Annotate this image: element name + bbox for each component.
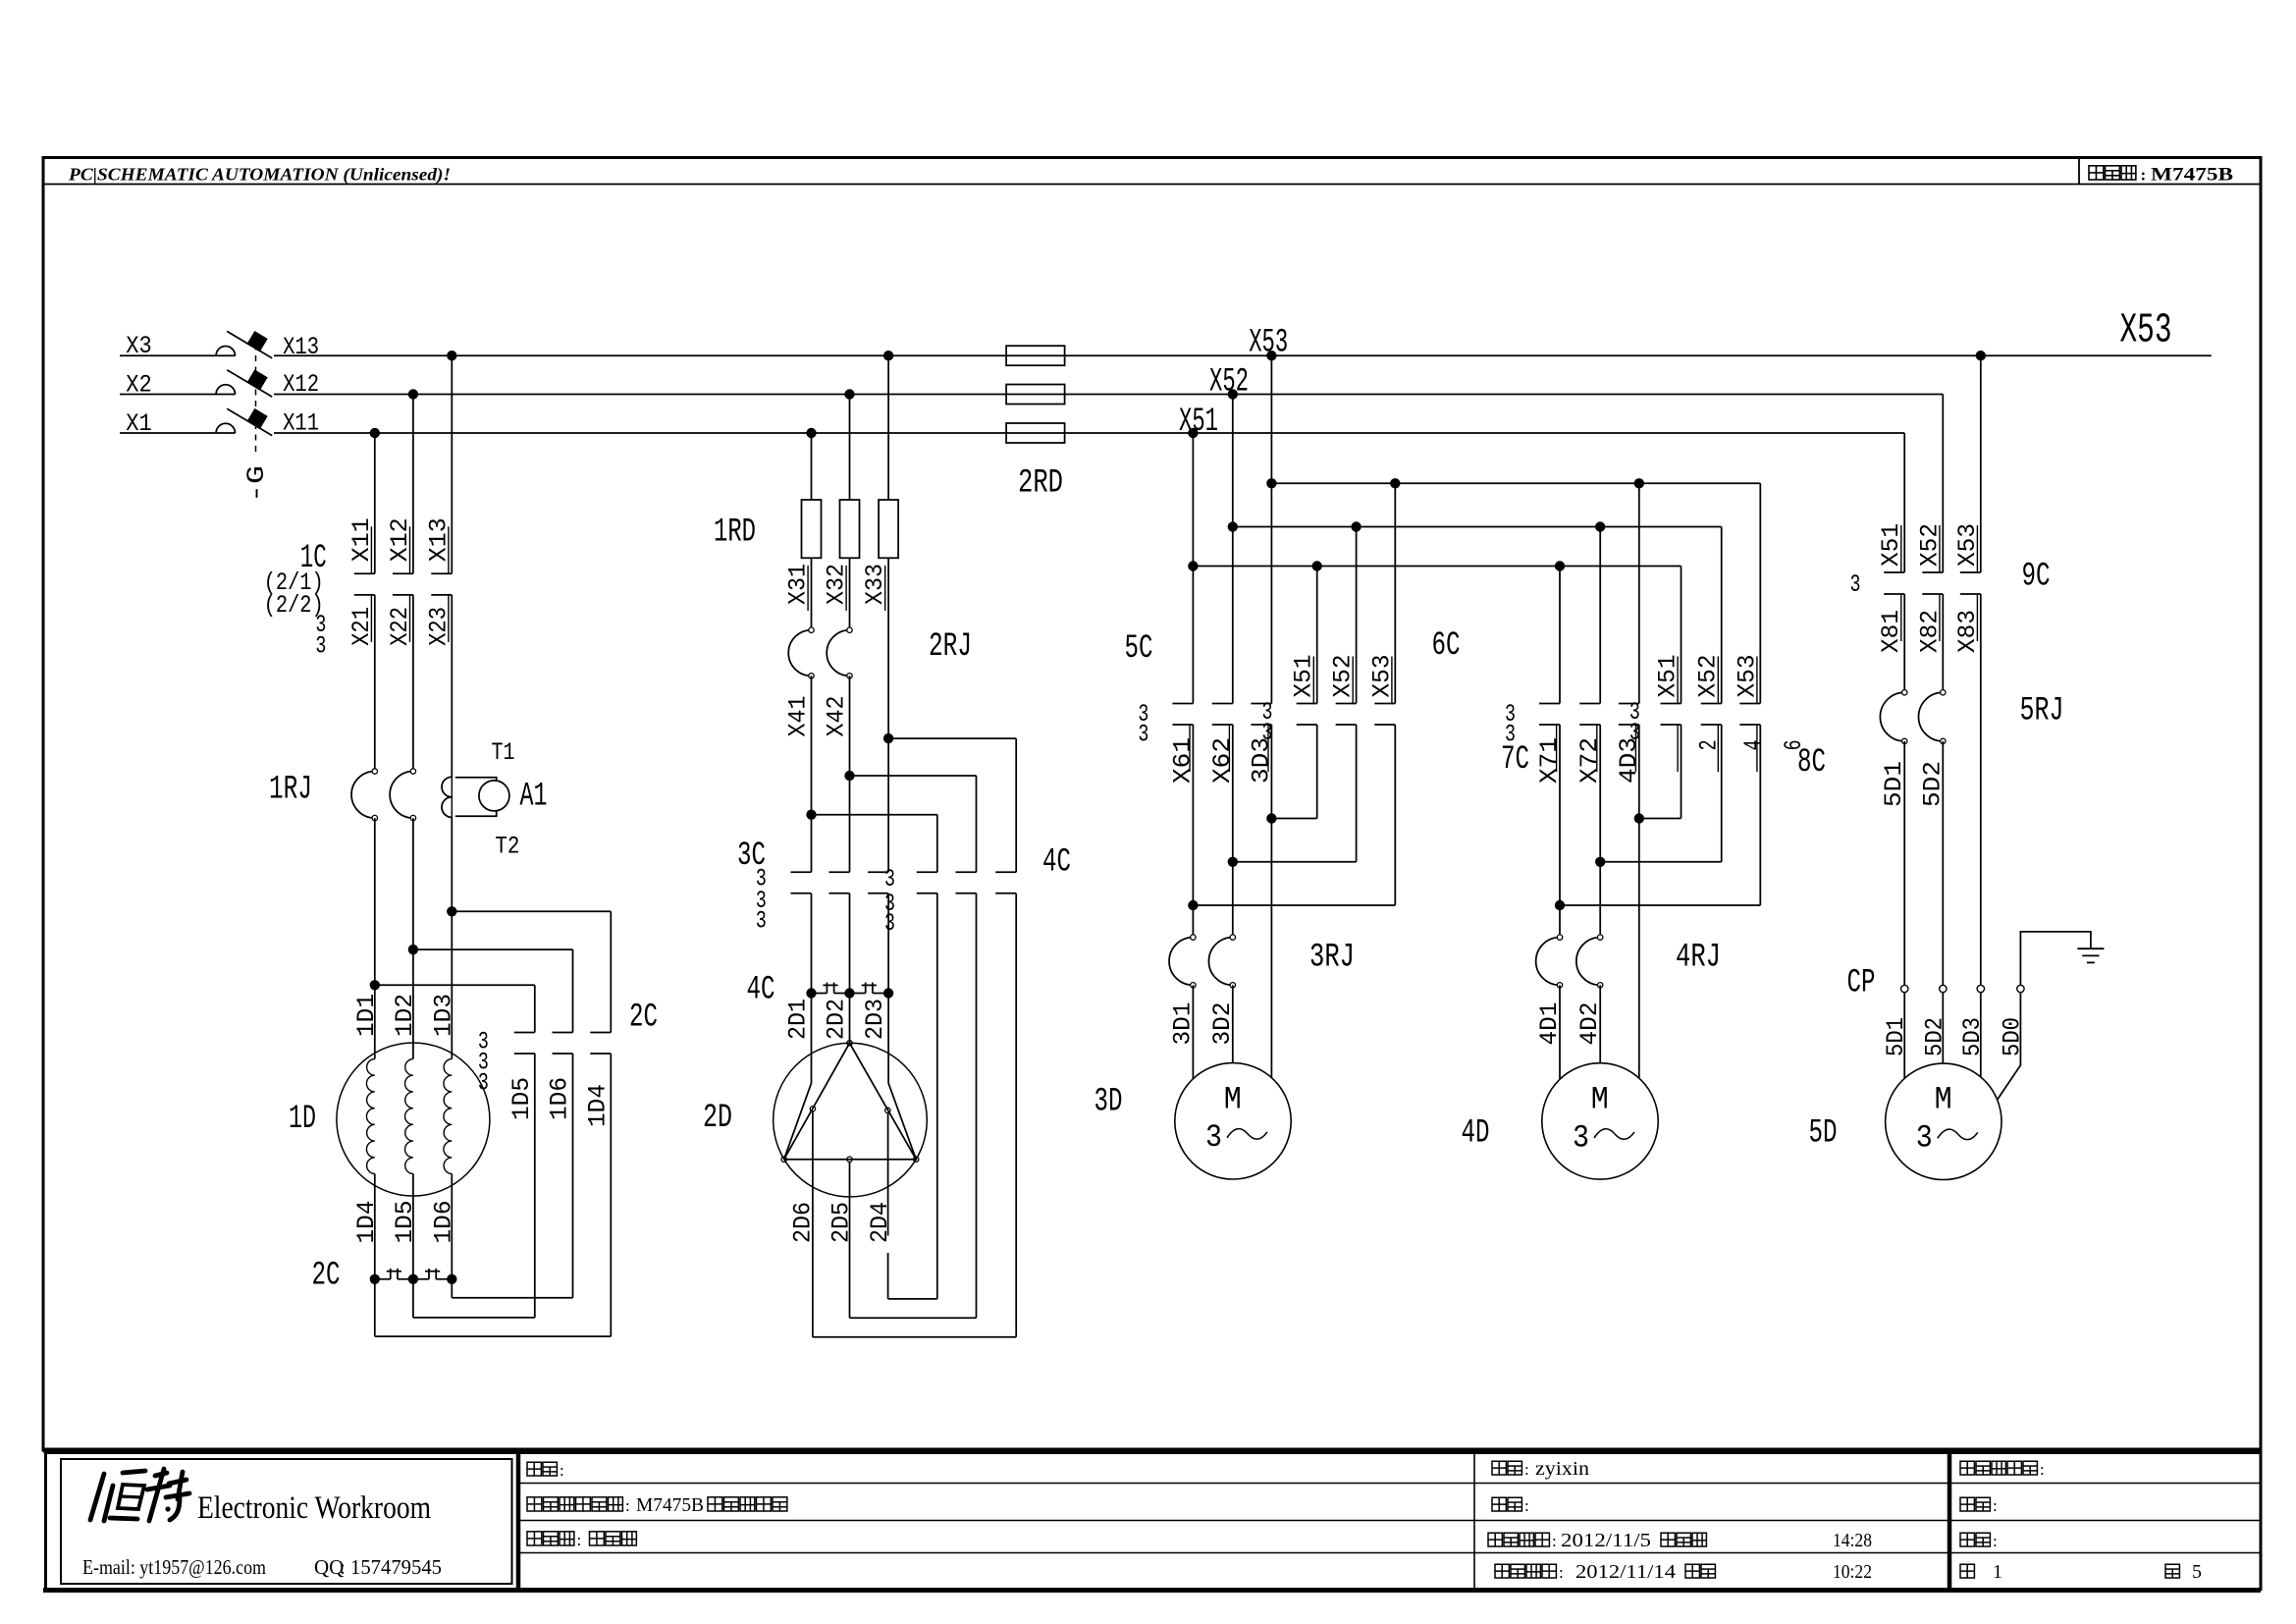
wire B1 to merge xyxy=(1316,725,1318,819)
svg-text:E-mail: yt1957@126.com: E-mail: yt1957@126.com xyxy=(82,1555,266,1579)
ammeter A1 wiring xyxy=(455,778,497,782)
contactor 8C contact X52 xyxy=(1701,703,1722,705)
svg-text:2D3: 2D3 xyxy=(861,999,889,1040)
svg-text:3: 3 xyxy=(1205,1119,1222,1156)
ground wire from CP xyxy=(2020,932,2091,986)
contactor 5C contact x=1215.4 xyxy=(1172,703,1193,705)
contactor 2C contact 1 xyxy=(514,1032,535,1034)
svg-text:3: 3 xyxy=(756,907,767,936)
link bridge 2 xyxy=(413,1278,429,1280)
node X1-C1 xyxy=(370,428,380,438)
svg-text:1D4: 1D4 xyxy=(352,1201,381,1244)
contactor 3C contact 3 xyxy=(868,871,888,873)
title block bottom thick line xyxy=(43,1588,2261,1593)
merge dot P1 xyxy=(1555,900,1565,910)
wire R6 upper xyxy=(610,911,612,1032)
wire 4D2 to motor xyxy=(1599,985,1601,1062)
wire 1D3 drop xyxy=(451,817,453,1058)
wire X82 to 5RJ xyxy=(1942,594,1944,692)
node X33 branch xyxy=(883,733,893,743)
field 共 5 xyxy=(2165,1564,2179,1578)
svg-text:3D: 3D xyxy=(1095,1084,1123,1121)
title row line 1 xyxy=(518,1483,2261,1485)
node X2-C2 xyxy=(408,389,418,399)
contactor 9C contact X53/X83 xyxy=(1960,571,1981,573)
svg-text:2C: 2C xyxy=(629,1000,658,1037)
thermal relay 2RJ arc 2 xyxy=(827,630,849,677)
motor 2D circle xyxy=(774,1043,928,1197)
node X52 tap xyxy=(1228,389,1238,399)
rail dot C-L1 xyxy=(1188,561,1198,570)
svg-text:2D6: 2D6 xyxy=(789,1202,818,1243)
svg-text::: : xyxy=(1559,1563,1564,1582)
wire X42 segment xyxy=(849,676,851,872)
star link dot 2 xyxy=(408,1274,418,1284)
wire S5 lower xyxy=(976,893,978,1318)
svg-text::: : xyxy=(340,1555,346,1579)
field 审核: xyxy=(1492,1497,1506,1511)
svg-text::: : xyxy=(1993,1496,1998,1515)
delta winding triangle xyxy=(784,1043,917,1159)
wire 2D4 tail xyxy=(887,1113,889,1236)
wire 5D3 to CP xyxy=(1980,594,1982,985)
svg-text:2C: 2C xyxy=(312,1258,341,1295)
svg-text:2D4: 2D4 xyxy=(866,1202,894,1243)
svg-text:5C: 5C xyxy=(1125,630,1153,668)
rail dot A-P3 xyxy=(1634,478,1644,488)
svg-text::: : xyxy=(1552,1532,1557,1550)
wire X41 segment xyxy=(811,676,813,872)
current transformer T1/T2 bumps xyxy=(442,777,452,797)
wire M1 to link xyxy=(811,893,813,994)
wire 5D0 to motor xyxy=(1998,993,2021,1100)
branch P1 drop xyxy=(1559,567,1561,704)
wire X21 segment xyxy=(374,595,376,772)
thermal relay 1RJ arc 2 xyxy=(390,772,413,819)
field 页 1 xyxy=(1960,1564,1974,1578)
wire 1D5 tail xyxy=(412,1279,414,1318)
node X3-C3 xyxy=(447,351,456,360)
contactor 2C contact 2 xyxy=(553,1032,573,1034)
svg-text:10:22: 10:22 xyxy=(1833,1561,1872,1583)
wire B3 to merge xyxy=(1394,725,1396,905)
ammeter A1 circle xyxy=(479,781,509,811)
contactor 9C contact X52/X82 xyxy=(1922,571,1943,573)
node 1D3 branch xyxy=(447,906,456,916)
svg-text:3RJ: 3RJ xyxy=(1309,940,1355,977)
rail X51 end drop xyxy=(1681,567,1682,704)
X53 tap drop xyxy=(1980,355,1982,572)
CP terminal 5D0 xyxy=(2017,985,2024,992)
wire X53 drop xyxy=(1270,355,1272,703)
title divider thick 2 xyxy=(1948,1453,1952,1590)
svg-text:9C: 9C xyxy=(2022,559,2051,596)
contactor 5C contact x=1255.8 xyxy=(1212,703,1233,705)
merge dot L3 xyxy=(1266,813,1276,823)
wire R5 lower xyxy=(572,1054,574,1298)
bottom run 2D4-S4 xyxy=(888,1298,937,1300)
rail dot A-B3 xyxy=(1390,478,1400,488)
terminal BL xyxy=(781,1157,786,1162)
svg-text:CP: CP xyxy=(1847,965,1876,1002)
svg-text:X12: X12 xyxy=(283,370,319,399)
motor 3D xyxy=(1175,1063,1291,1179)
wire M3 to link xyxy=(887,893,889,994)
wire Q3 to merge xyxy=(1759,725,1761,905)
transformer winding 3 xyxy=(444,1059,452,1174)
svg-text::: : xyxy=(577,1531,582,1549)
svg-text:2D5: 2D5 xyxy=(828,1202,856,1243)
svg-text:2RD: 2RD xyxy=(1018,464,1063,502)
merge dot P3 xyxy=(1634,813,1644,823)
svg-text:3: 3 xyxy=(1138,720,1148,748)
svg-text:4C: 4C xyxy=(1042,844,1071,882)
svg-text:X13: X13 xyxy=(283,333,319,361)
wire P1 to 4RJ xyxy=(1559,905,1561,938)
rail X53 end drop xyxy=(1759,483,1761,703)
logo 恒特 (calligraphy) xyxy=(90,1469,189,1521)
wire 3D3 to motor xyxy=(1270,819,1272,1078)
svg-text:X2: X2 xyxy=(126,370,152,399)
CP terminal 5D1 xyxy=(1901,985,1908,992)
wire 5D1 to CP xyxy=(1903,741,1905,986)
svg-text:5D: 5D xyxy=(1809,1115,1838,1153)
merge dot L1 xyxy=(1188,900,1198,910)
svg-text:6C: 6C xyxy=(1432,627,1461,665)
wire M2 to link xyxy=(849,893,851,994)
svg-text:5: 5 xyxy=(2192,1561,2202,1583)
svg-text:3: 3 xyxy=(1573,1119,1589,1156)
breaker linkage dashed line xyxy=(255,333,257,454)
svg-text:A1: A1 xyxy=(520,779,548,816)
X52 line corner drop xyxy=(1942,395,1944,573)
wire 2D5 tail xyxy=(849,1162,851,1318)
wire R4 upper xyxy=(534,985,536,1032)
thermal relay 4RJ arc 2 xyxy=(1576,938,1600,986)
svg-text:4: 4 xyxy=(1739,739,1768,750)
field 创建时间: 2012/11/5 星期一 14:28 xyxy=(1488,1533,1502,1546)
title block frame xyxy=(46,1453,2262,1590)
wire L3 to merge xyxy=(1270,725,1272,819)
rail X52 xyxy=(1233,526,1722,528)
svg-text:2D2: 2D2 xyxy=(823,999,851,1040)
svg-text:X42: X42 xyxy=(823,696,851,737)
title row line 2 xyxy=(518,1520,2261,1522)
branch B3 drop xyxy=(1394,483,1396,703)
wire L2 to merge xyxy=(1232,725,1234,862)
wire M3 to contact xyxy=(887,738,889,872)
wire X11 drop xyxy=(374,433,376,573)
contactor 6C contact X52 xyxy=(1336,703,1357,705)
contactor 4C contact 1 xyxy=(917,871,937,873)
wire 4D1 to motor xyxy=(1559,985,1561,1079)
rail dot B-B2 xyxy=(1351,521,1361,531)
phase line X3 (top) xyxy=(120,354,236,356)
contactor 8C contact X51 xyxy=(1661,703,1682,705)
link dot M2 xyxy=(844,988,854,998)
wire Q1 to merge xyxy=(1681,725,1682,819)
svg-text:X51: X51 xyxy=(1179,404,1218,441)
thermal relay 3RJ arc 1 xyxy=(1169,938,1193,986)
contactor 6C contact X51 xyxy=(1297,703,1317,705)
star link dot 1 xyxy=(370,1274,380,1284)
motor 4D xyxy=(1542,1063,1658,1179)
filename label 文件名: M7475B xyxy=(2089,166,2104,180)
wire Q2 to merge xyxy=(1721,725,1723,862)
svg-text:X53: X53 xyxy=(1249,325,1288,362)
breaker -G pole X13 xyxy=(216,347,235,356)
wire 4D3 to motor xyxy=(1638,819,1640,1078)
field 用户: xyxy=(527,1462,541,1476)
node X53-9C tap xyxy=(1976,351,1986,360)
svg-text:X11: X11 xyxy=(283,408,319,437)
svg-text:2012/11/5: 2012/11/5 xyxy=(1561,1530,1651,1551)
thermal relay 5RJ arc 2 xyxy=(1919,692,1944,741)
phase line X1 (bottom) xyxy=(120,432,236,434)
bottom run 1D6-R5 xyxy=(452,1297,572,1299)
svg-text:2D: 2D xyxy=(703,1100,732,1137)
contactor 5C contact x=1295.4 xyxy=(1251,703,1271,705)
bottom run 2D5-S5 xyxy=(850,1317,977,1319)
wire X81 to 5RJ xyxy=(1903,594,1905,692)
link dot M1 xyxy=(806,988,816,998)
svg-text:X1: X1 xyxy=(126,409,152,438)
wire P2 to 4RJ xyxy=(1599,862,1601,938)
wire 5D2 to CP xyxy=(1942,741,1944,986)
branch 1D1 to R4 xyxy=(375,984,535,986)
svg-text:1D6: 1D6 xyxy=(429,1201,457,1244)
wire M2 drop xyxy=(849,395,851,501)
CP terminal 5D3 xyxy=(1977,985,1984,992)
branch B2 drop xyxy=(1356,527,1358,704)
wire 5D3 to motor xyxy=(1980,993,1982,1077)
wire 1D1 drop xyxy=(374,818,376,1058)
terminal BR xyxy=(914,1157,919,1162)
svg-text:5D3: 5D3 xyxy=(1958,1017,1987,1056)
wire X32 segment xyxy=(849,558,851,629)
wire S6 upper xyxy=(1015,738,1017,872)
svg-text:3: 3 xyxy=(884,909,895,938)
bottom run 1D4-R6 xyxy=(375,1335,612,1337)
svg-text:4D: 4D xyxy=(1462,1115,1490,1153)
svg-text:Electronic Workroom: Electronic Workroom xyxy=(197,1490,431,1526)
title divider thin xyxy=(1473,1453,1475,1590)
wire winding1 to star xyxy=(374,1174,376,1279)
svg-text:5D0: 5D0 xyxy=(1998,1017,2026,1056)
phase line X2 (middle) xyxy=(120,394,236,396)
contactor 3C contact 1 xyxy=(791,871,812,873)
wire X13 drop xyxy=(451,355,453,573)
contactor 1C contact X13/X23 xyxy=(431,572,452,574)
wire S4 upper xyxy=(936,815,938,873)
node X42 branch xyxy=(844,771,854,781)
field 参考: xyxy=(1960,1533,1974,1546)
svg-text:1D1: 1D1 xyxy=(352,994,381,1037)
terminal apex xyxy=(847,1041,852,1046)
contactor 2C contact 3 xyxy=(590,1032,611,1034)
node X53 tap xyxy=(1266,351,1276,360)
branch X33 to S6 xyxy=(888,737,1016,739)
field 修订: xyxy=(1960,1497,1974,1511)
wire X22 segment xyxy=(412,595,414,772)
wire B2 to merge xyxy=(1356,725,1358,862)
svg-text:3: 3 xyxy=(478,1068,489,1097)
wire X23 through CT xyxy=(451,777,453,817)
svg-text::: : xyxy=(1524,1496,1529,1515)
contactor 8C contact X53 xyxy=(1739,703,1760,705)
svg-text:3: 3 xyxy=(1850,570,1861,599)
wire L1 to merge xyxy=(1192,725,1194,905)
svg-text:1D6: 1D6 xyxy=(546,1077,574,1120)
wire M1 drop xyxy=(811,433,813,500)
thermal relay 4RJ arc 1 xyxy=(1536,938,1560,986)
svg-text:1RJ: 1RJ xyxy=(269,772,312,809)
wire R4 lower xyxy=(534,1054,536,1318)
wire X23 segment xyxy=(451,595,453,777)
svg-text:6: 6 xyxy=(1780,739,1808,750)
fuse 2RD pole 1 xyxy=(1006,346,1065,365)
wire L2 to 3RJ xyxy=(1232,862,1234,938)
thermal relay 3RJ arc 2 xyxy=(1208,938,1232,986)
contactor 3C contact 2 xyxy=(829,871,850,873)
wire 3D1 to motor xyxy=(1192,985,1194,1078)
transformer winding 2 xyxy=(405,1059,413,1174)
ground symbol xyxy=(2077,947,2104,949)
wire X33 long drop xyxy=(887,558,889,738)
contactor 1C contact X11/X21 xyxy=(354,572,375,574)
wire R6 lower xyxy=(610,1054,612,1336)
node X1-M1 xyxy=(806,428,816,438)
header separator line xyxy=(43,184,2261,186)
link dot M3 xyxy=(883,988,893,998)
field 上次改动: 2012/11/14 星期 10:22 xyxy=(1495,1564,1509,1578)
branch 1D3 to R6 xyxy=(452,910,611,912)
svg-text:14:28: 14:28 xyxy=(1833,1530,1872,1551)
wire 5D1 to motor xyxy=(1903,993,1905,1079)
svg-text:5D1: 5D1 xyxy=(1882,1017,1910,1056)
rail dot A-L3 xyxy=(1266,478,1276,488)
svg-text::: : xyxy=(2040,1460,2045,1479)
fuse 1RD pole 1 xyxy=(802,500,822,558)
svg-text:PC|SCHEMATIC AUTOMATION (Unlic: PC|SCHEMATIC AUTOMATION (Unlicensed)! xyxy=(68,165,451,185)
wire winding3 to star xyxy=(451,1174,453,1279)
wire S6 lower xyxy=(1015,893,1017,1337)
X51 line corner drop xyxy=(1903,433,1905,572)
field 设计方案号: xyxy=(1960,1461,1974,1475)
node 1D1 branch xyxy=(370,980,380,990)
wire 2D2 into motor xyxy=(849,994,851,1044)
wire L1 to 3RJ xyxy=(1192,905,1194,938)
field 设计方案标题: M7475B控制原理图 xyxy=(527,1497,542,1511)
page border frame xyxy=(43,158,2261,1451)
merge dot P2 xyxy=(1595,857,1605,867)
svg-text:1D5: 1D5 xyxy=(507,1077,536,1120)
svg-text:2012/11/14: 2012/11/14 xyxy=(1575,1561,1676,1583)
svg-text:1D3: 1D3 xyxy=(429,994,457,1037)
contactor 4C contact 2 xyxy=(956,871,977,873)
thermal relay 1RJ arc 1 xyxy=(351,772,375,819)
contactor 4C contact 3 xyxy=(995,871,1016,873)
contactor 1C contact X12/X22 xyxy=(393,572,413,574)
transformer winding 1 xyxy=(366,1059,374,1174)
svg-text:3: 3 xyxy=(1505,720,1516,748)
terminal bottom-mid xyxy=(847,1157,852,1162)
node X3-M3 xyxy=(883,351,893,360)
wire 1D6 tail xyxy=(451,1279,453,1298)
svg-text:X41: X41 xyxy=(784,696,813,737)
title row line 3 xyxy=(518,1552,2261,1554)
fuse 2RD pole 3 xyxy=(1006,423,1065,443)
wire 2D6 tail xyxy=(812,1111,814,1337)
svg-text:1D4: 1D4 xyxy=(583,1084,612,1127)
wire 2D1 into motor xyxy=(784,994,812,1160)
svg-text::: : xyxy=(560,1461,564,1480)
contactor 6C contact X53 xyxy=(1374,703,1395,705)
title divider thick 1 xyxy=(516,1453,521,1590)
svg-text:M7475B: M7475B xyxy=(2151,166,2233,186)
wire P2 to merge xyxy=(1599,725,1601,862)
terminal mid-left xyxy=(810,1107,815,1111)
branch X42 to S5 xyxy=(850,775,977,777)
branch P3 drop xyxy=(1638,483,1640,703)
svg-text:2RJ: 2RJ xyxy=(929,628,972,666)
svg-text:-G: -G xyxy=(242,465,271,503)
svg-text:4C: 4C xyxy=(747,971,775,1008)
svg-text:zyixin: zyixin xyxy=(1535,1458,1589,1480)
svg-text:1D: 1D xyxy=(289,1101,316,1138)
svg-text:4RJ: 4RJ xyxy=(1676,940,1721,977)
wire X52 drop xyxy=(1232,395,1234,704)
wire 1D2 drop xyxy=(412,818,414,1058)
motor 5D xyxy=(1886,1063,2002,1179)
svg-text:X53: X53 xyxy=(2120,306,2172,354)
wire X12 drop xyxy=(412,395,414,574)
wire R5 upper xyxy=(572,949,574,1032)
svg-text:5D2: 5D2 xyxy=(1920,1017,1949,1056)
svg-text:1D5: 1D5 xyxy=(391,1201,419,1244)
link bridge M1-M2 xyxy=(812,993,828,995)
link bridge M2-M3 xyxy=(850,993,866,995)
branch P2 drop xyxy=(1599,527,1601,704)
wire S4 lower xyxy=(936,893,938,1299)
node X2-M2 xyxy=(844,389,854,399)
field 页标题: 主回路 xyxy=(527,1532,542,1545)
svg-text:157479545: 157479545 xyxy=(350,1555,442,1579)
node X41 branch xyxy=(806,810,816,820)
svg-text:M: M xyxy=(1224,1081,1242,1117)
svg-text:M7475B: M7475B xyxy=(636,1494,704,1516)
thermal relay 2RJ arc 1 xyxy=(788,630,811,677)
wire M3 drop xyxy=(887,355,889,500)
svg-text:1RD: 1RD xyxy=(714,514,756,552)
svg-text:M: M xyxy=(1935,1082,1952,1118)
svg-text:M: M xyxy=(1591,1081,1609,1117)
CP terminal 5D2 xyxy=(1940,985,1947,992)
field 设计: zyixin xyxy=(1492,1461,1506,1475)
svg-text::: : xyxy=(1524,1460,1529,1479)
branch 1D2 to R5 xyxy=(413,948,573,950)
wire P1 to merge xyxy=(1559,725,1561,905)
wire P3 to merge xyxy=(1638,725,1640,819)
rail X52 end drop xyxy=(1721,527,1723,704)
wire S5 upper xyxy=(976,776,978,872)
node X51 tap xyxy=(1188,428,1198,438)
svg-text:5RJ: 5RJ xyxy=(2020,693,2064,731)
wire X51 drop xyxy=(1192,433,1194,704)
svg-text:1: 1 xyxy=(1993,1561,2002,1583)
wire winding2 to star xyxy=(412,1174,414,1279)
rail dot B-L2 xyxy=(1228,521,1238,531)
